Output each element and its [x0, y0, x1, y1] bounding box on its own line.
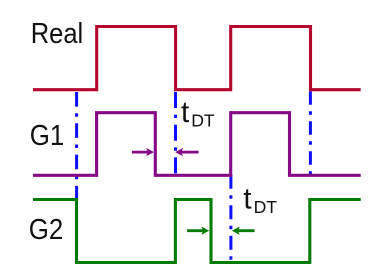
arrow dead-time right (purple): [132, 148, 154, 156]
node event line E1 (blue dash-dot, G2 turn-off): [75, 92, 78, 200]
svg-text:G1: G1: [30, 120, 65, 152]
svg-text:tDT: tDT: [243, 183, 277, 218]
arrow dead-time left (green): [232, 227, 255, 235]
svg-text:Real: Real: [31, 18, 83, 50]
arrow dead-time left (purple): [175, 148, 198, 156]
node event line E3 (blue dash-dot, Real rising edge 2): [229, 175, 232, 262]
wire G1 waveform (purple square wave): [33, 113, 361, 176]
wire Real waveform (dark red square wave): [33, 27, 361, 90]
node event line E4 (blue dash-dot, Real falling edge 2): [309, 91, 312, 174]
wire G2 waveform (green square wave): [33, 200, 361, 263]
node event line E2 (blue dash-dot, Real falling edge): [174, 92, 177, 175]
arrow dead-time right (green): [187, 227, 209, 235]
svg-text:G2: G2: [29, 214, 64, 246]
svg-text:tDT: tDT: [181, 96, 215, 131]
